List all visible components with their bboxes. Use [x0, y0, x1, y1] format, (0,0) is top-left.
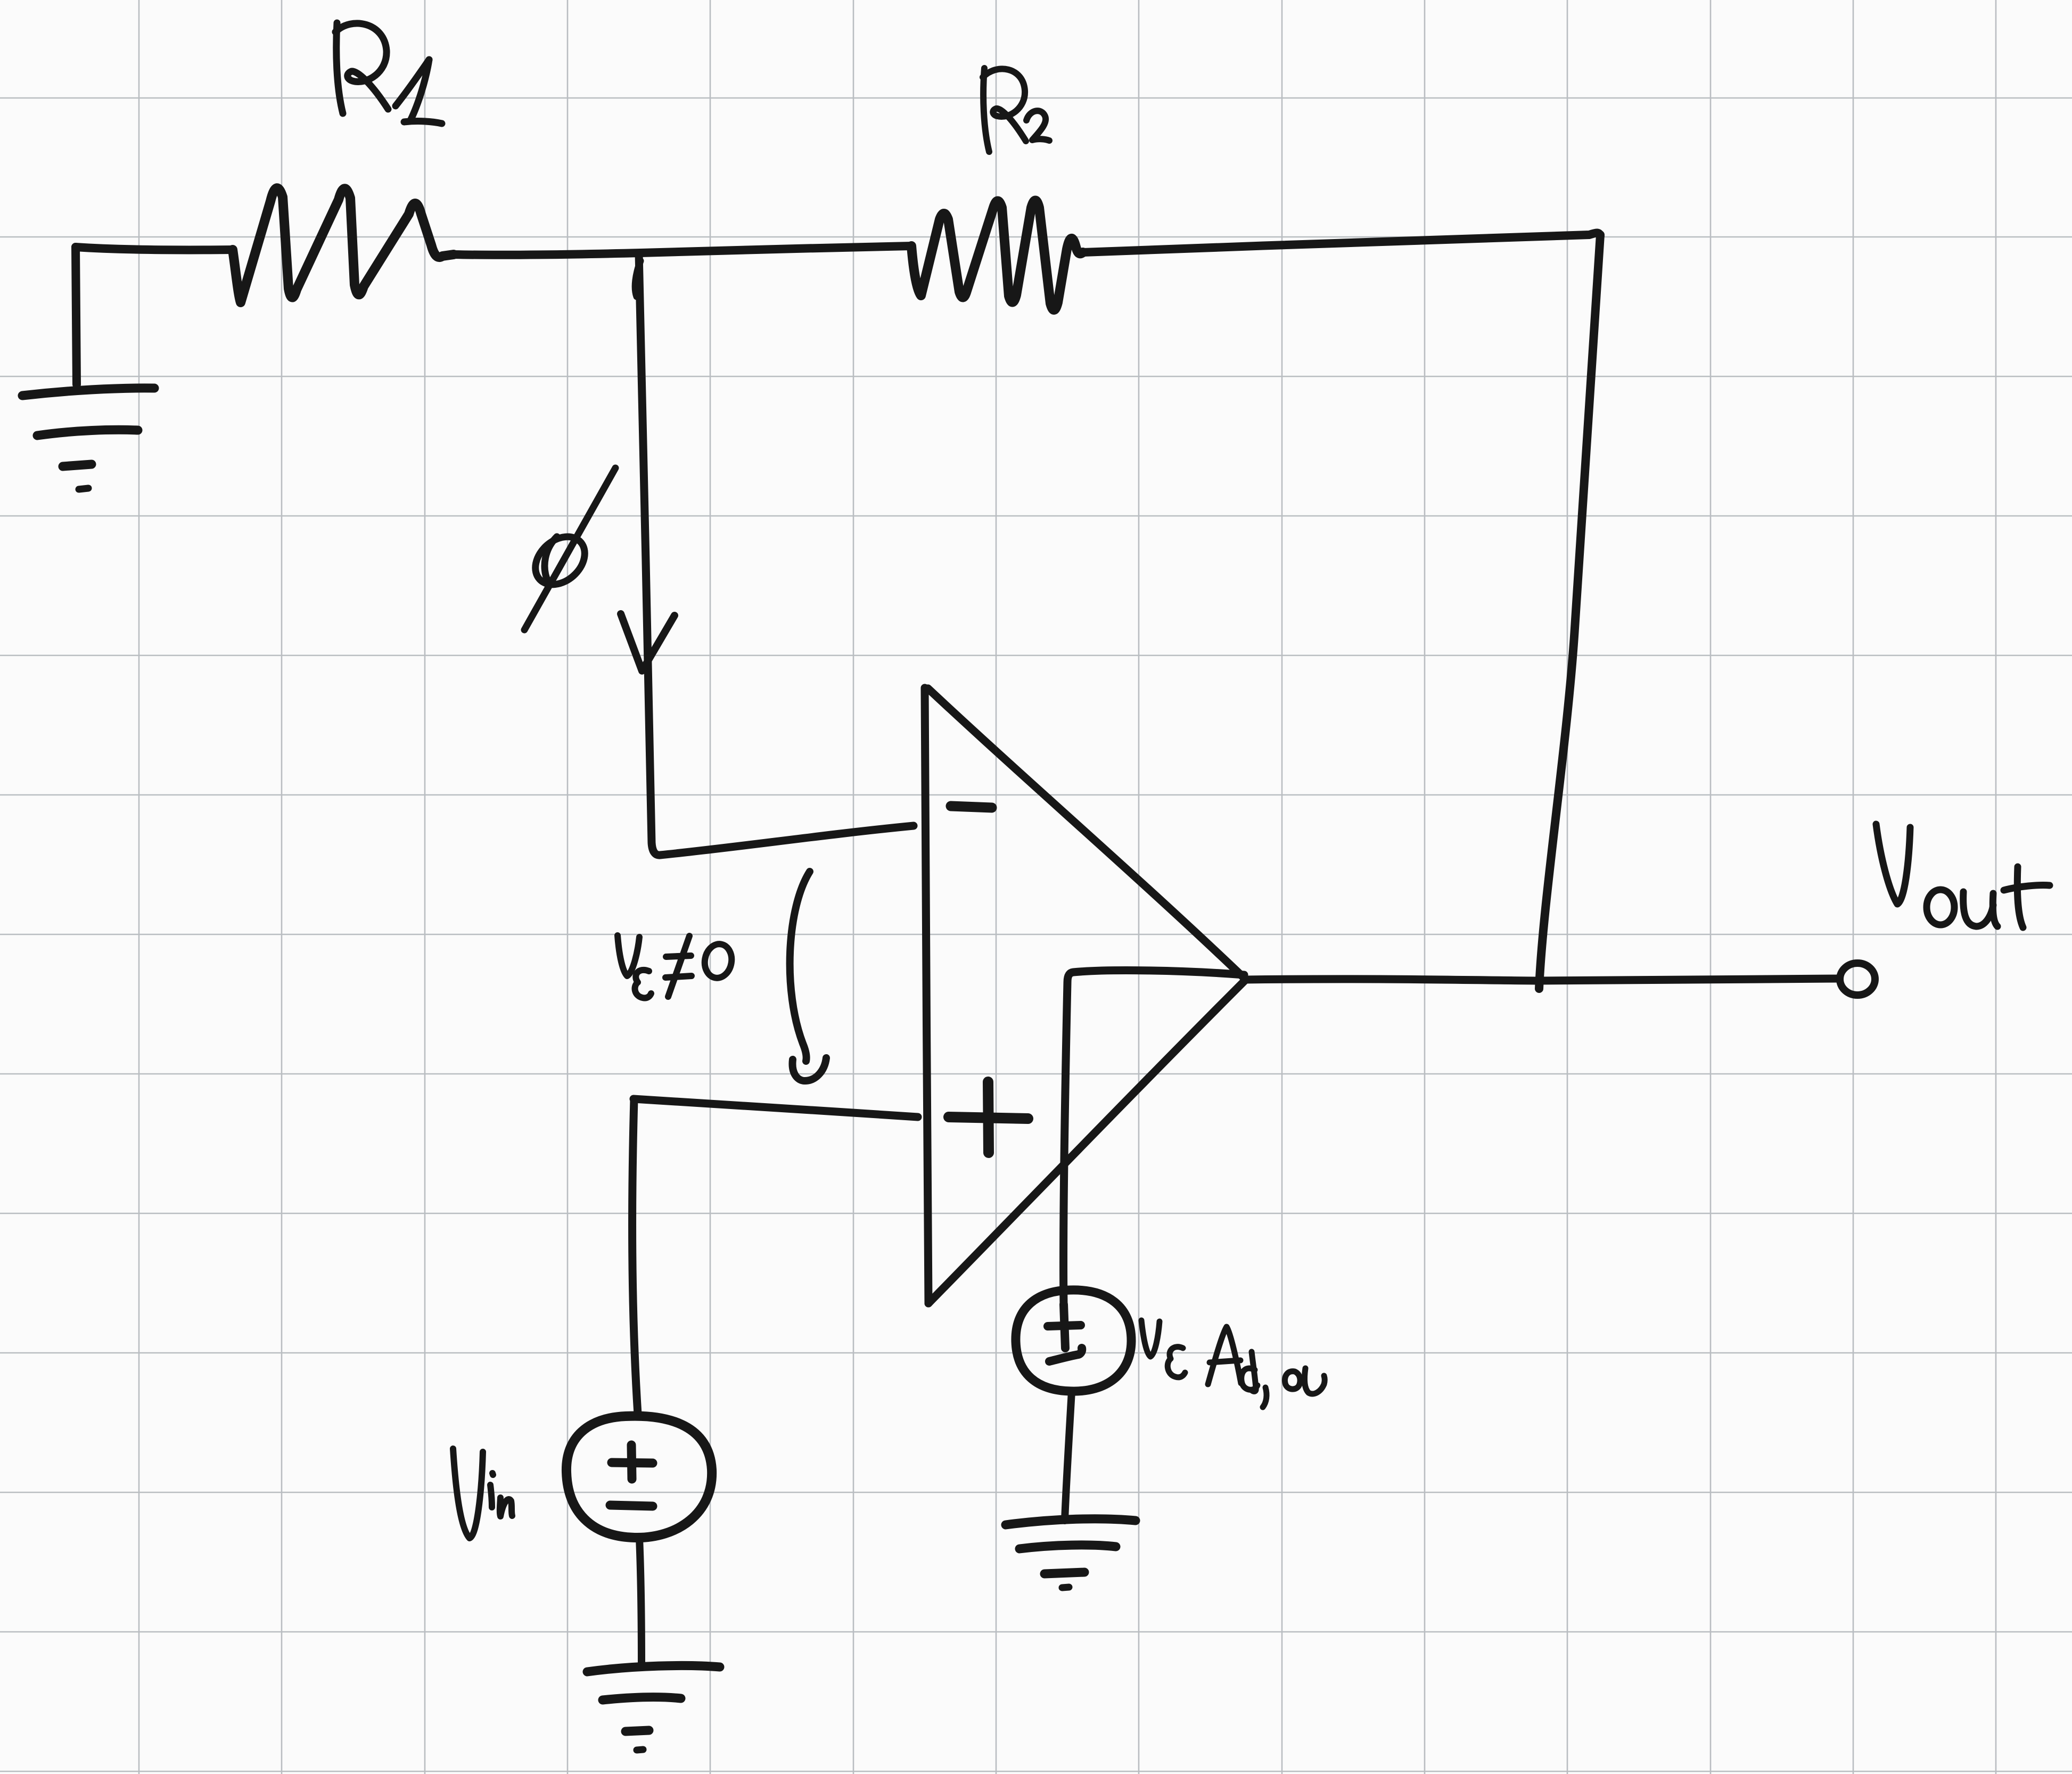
- wire: junction to R2: [640, 246, 911, 253]
- label v_epsilon Ad,OL: [1141, 1320, 1325, 1407]
- wire: R1 to inverting junction: [454, 253, 640, 255]
- wire: input node to ground stub: [76, 247, 77, 384]
- resistor R2: [911, 201, 1083, 310]
- label R1: [335, 23, 442, 124]
- label Vout: [1876, 824, 2050, 927]
- label R2: [983, 68, 1049, 152]
- wire: junction down toward inverting input: [639, 253, 914, 855]
- ground GND1: [22, 388, 154, 489]
- wire: R2 right to feedback corner: [1083, 233, 1600, 252]
- wire: dependent source to op-amp output apex: [1064, 971, 1244, 1304]
- curved arrow v_epsilon: [790, 872, 810, 1061]
- wire: non-inverting input down to Vin: [632, 1099, 638, 1414]
- dependent source V_e*Ad,OL: [1016, 1290, 1131, 1391]
- inverting input pin (-): [951, 806, 992, 808]
- ground GND2: [587, 1665, 720, 1750]
- wire: feedback vertical to output node: [1539, 235, 1600, 989]
- node Vout terminal: [1840, 963, 1875, 995]
- resistor R1: [233, 188, 454, 302]
- zero current symbol (phi): [524, 468, 615, 630]
- wire: Vin to ground: [639, 1538, 642, 1665]
- node: inverting junction pen tick: [635, 261, 640, 297]
- op-amp U1: [925, 688, 1245, 1303]
- current arrow: [621, 614, 675, 671]
- wire: op-amp output to Vout terminal: [1245, 979, 1839, 981]
- wire: input node horizontal segment: [76, 247, 233, 250]
- label Vin: [453, 1449, 512, 1538]
- ground GND3: [1006, 1519, 1136, 1588]
- label v_epsilon != 0: [618, 935, 734, 998]
- source Vin: [566, 1416, 712, 1538]
- wire: dependent source to ground: [1065, 1391, 1072, 1521]
- wire: non-inverting input horizontal: [634, 1099, 918, 1117]
- non-inverting input pin (+): [949, 1082, 1028, 1153]
